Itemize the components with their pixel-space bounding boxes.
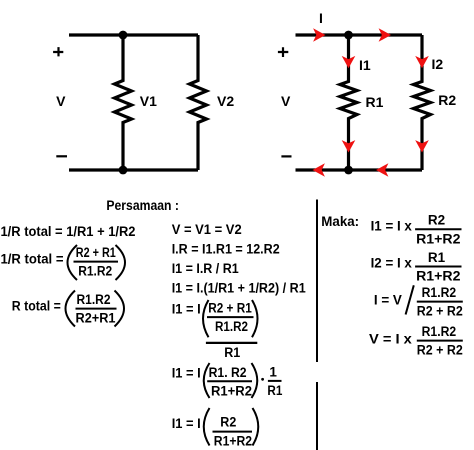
svg-text:V = V1 = V2: V = V1 = V2: [172, 222, 242, 237]
equation: I = V / (R1.R2)/(R2+R2): [374, 285, 463, 319]
current arrow on bottom wire (leftward, right of junction): [376, 163, 388, 177]
svg-text:I1 = I: I1 = I: [172, 302, 201, 317]
right circuit: bottom wire: [296, 168, 423, 171]
svg-text:R total =: R total =: [12, 299, 61, 314]
svg-text:I1 = I: I1 = I: [172, 366, 201, 381]
svg-text:I: I: [319, 10, 323, 26]
label + (left circuit polarity): [53, 47, 63, 56]
equation: R total = (R1.R2)/(R2+R1): [12, 291, 124, 327]
svg-text:I1 = I x: I1 = I x: [371, 218, 413, 233]
svg-text:V: V: [56, 93, 66, 109]
divider line (upper segment): [316, 200, 318, 363]
node: bottom junction dot (right circuit): [344, 166, 353, 175]
svg-text:R1. R2: R1. R2: [209, 365, 247, 380]
current arrow I on top wire (rightward, before junction): [313, 28, 325, 42]
left circuit: bottom wire: [69, 168, 198, 171]
svg-text:I.R = I1.R1 = 12.R2: I.R = I1.R1 = 12.R2: [172, 241, 280, 256]
equation: I1 = I(R2/(R1+R2)): [172, 408, 259, 448]
svg-text:I1 = I.(1/R1 + 1/R2) / R1: I1 = I.(1/R1 + 1/R2) / R1: [172, 280, 306, 295]
svg-text:I = V: I = V: [374, 292, 402, 307]
svg-text:I1: I1: [359, 57, 371, 73]
current arrow I1 (downward into R1): [342, 56, 356, 68]
svg-text:V1: V1: [140, 93, 157, 109]
svg-text:R2: R2: [428, 213, 445, 228]
svg-text:R2+R1: R2+R1: [76, 311, 116, 326]
svg-text:R1.R2: R1.R2: [215, 319, 248, 334]
resistor V2 (left circuit, branch with zigzag): [190, 35, 207, 170]
svg-text:R1: R1: [428, 250, 446, 265]
svg-text:V2: V2: [217, 93, 234, 109]
svg-text:Persamaan :: Persamaan :: [106, 198, 178, 213]
resistor R2 (right circuit, branch with zigzag): [414, 35, 431, 170]
svg-text:1/R total =: 1/R total =: [1, 252, 64, 267]
svg-text:R1.R2: R1.R2: [78, 264, 112, 279]
current arrow on top wire (rightward, toward R2): [379, 28, 391, 42]
right circuit: top wire: [296, 33, 423, 36]
svg-text:R1.R2: R1.R2: [77, 292, 111, 307]
current arrow below R2 (downward): [415, 140, 429, 152]
svg-text:I2 = I x: I2 = I x: [371, 256, 413, 271]
svg-text:I2: I2: [432, 56, 444, 72]
node: top junction dot (right circuit): [344, 31, 353, 40]
svg-text:R1+R2: R1+R2: [416, 269, 460, 284]
resistor V1 (left circuit, branch with zigzag): [115, 35, 132, 170]
svg-text:R1: R1: [366, 94, 384, 110]
svg-text:R2: R2: [220, 415, 236, 430]
svg-text:I1 = I: I1 = I: [172, 416, 201, 431]
svg-text:R1+R2: R1+R2: [211, 383, 252, 398]
current arrow on bottom wire (leftward, left of junction): [313, 163, 325, 177]
equation: I1 = I((R2+R1)/(R1.R2)) / R1: [172, 300, 258, 360]
svg-text:V = I x: V = I x: [369, 332, 412, 347]
equation: 1/R total = (R2+R1)/(R1.R2): [1, 245, 126, 280]
label + (right circuit polarity): [278, 47, 288, 57]
svg-text:R1+R2: R1+R2: [416, 231, 460, 246]
label minus (right circuit polarity): [281, 155, 291, 157]
resistor R1 (right circuit, branch with zigzag): [340, 35, 357, 170]
current arrow below R1 (downward): [342, 140, 356, 152]
svg-text:R1+R2: R1+R2: [214, 433, 252, 448]
left circuit: top wire: [69, 33, 198, 36]
svg-text:R1.R2: R1.R2: [422, 285, 457, 300]
svg-text:R1: R1: [267, 383, 282, 398]
svg-text:R2: R2: [438, 92, 456, 108]
svg-text:Maka:: Maka:: [321, 214, 359, 229]
node: bottom junction dot (left circuit): [119, 166, 128, 175]
svg-text:R2 + R1: R2 + R1: [76, 245, 116, 260]
svg-text:R2 + R2: R2 + R2: [417, 343, 463, 358]
svg-text:R2 + R2: R2 + R2: [417, 304, 463, 319]
equation: I1 = I x R2/(R1+R2): [371, 213, 462, 247]
svg-text:R1: R1: [224, 345, 240, 360]
svg-text:R2 + R1: R2 + R1: [208, 301, 252, 316]
svg-text:I1 = I.R / R1: I1 = I.R / R1: [172, 261, 239, 276]
svg-text:1/R total = 1/R1 + 1/R2: 1/R total = 1/R1 + 1/R2: [1, 224, 136, 239]
svg-text:R1.R2: R1.R2: [422, 324, 457, 339]
label minus (left circuit polarity): [56, 155, 67, 157]
node: top junction dot (left circuit): [119, 31, 128, 40]
equation: V = I x (R1.R2)/(R2+R2): [369, 324, 463, 358]
svg-text:1: 1: [269, 365, 277, 380]
current arrow I2 (downward into R2): [415, 56, 429, 68]
divider line (lower segment): [316, 382, 318, 450]
svg-text:V: V: [281, 93, 291, 109]
equation: I2 = I x R1/(R1+R2): [371, 250, 462, 284]
equation: I1 = I((R1.R2)/(R1+R2)) . 1/R1: [172, 363, 283, 398]
